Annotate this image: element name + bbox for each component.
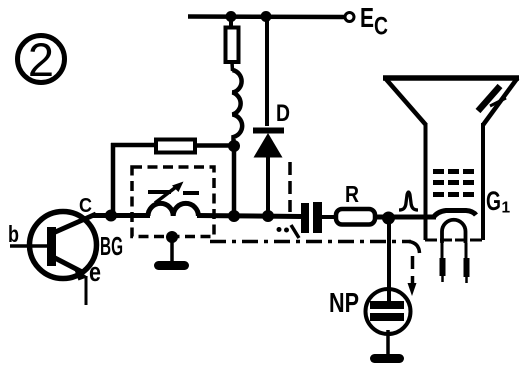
ground bar coil — [159, 261, 185, 270]
svg-text:G: G — [486, 186, 501, 216]
body right wall — [481, 123, 485, 240]
svg-text:e: e — [89, 257, 101, 287]
wire: Ec supply rail — [188, 14, 344, 19]
diaphragm curve — [433, 211, 476, 219]
figure label (2) — [18, 33, 65, 86]
transistor BG circle — [30, 212, 97, 279]
junction dot choke/feedback — [228, 140, 240, 152]
wire rail to resistor — [229, 16, 233, 28]
junction dot main/choke — [228, 210, 240, 222]
svg-text:D: D — [276, 100, 290, 127]
junction dot collector node — [105, 210, 117, 222]
variable core dashes — [148, 190, 171, 194]
grille dashes row 2 — [433, 180, 474, 185]
NP plate 1 — [370, 301, 404, 309]
junction dot main/diode — [262, 210, 274, 222]
pin left — [441, 243, 444, 259]
capacitor coupling plate 2 — [313, 202, 322, 233]
diode D cathode bar — [253, 128, 284, 134]
emitter diagonal wire — [53, 257, 82, 272]
wire diode to main line — [266, 156, 270, 216]
body bottom edge — [425, 239, 483, 242]
body left wall — [424, 123, 428, 240]
pin right — [465, 243, 468, 259]
funnel hatch mark — [478, 86, 500, 111]
shield dash-dot horizontal — [210, 240, 411, 244]
transistor base bar — [47, 227, 56, 266]
junction dot rail/resistor — [226, 11, 237, 22]
pulse waveform symbol — [399, 192, 418, 210]
wire NP to ground — [386, 330, 390, 356]
junction dot box ground tap — [166, 231, 178, 243]
shield dots pair — [277, 227, 282, 232]
collector diagonal wire — [53, 214, 96, 233]
shield vertical dashes to arrow — [411, 256, 415, 284]
resistor (collector load) — [226, 28, 239, 63]
svg-text:1: 1 — [502, 200, 511, 217]
resistor R — [336, 209, 375, 225]
svg-text:BG: BG — [100, 231, 123, 261]
wire node down to NP — [387, 218, 391, 303]
funnel right slant — [483, 78, 518, 125]
horn speaker funnel top — [383, 75, 519, 81]
wire capacitor to R — [322, 215, 337, 219]
base lead wire — [10, 244, 48, 248]
variable inductor tank coil — [148, 203, 198, 216]
shield dash-dot vertical left — [288, 162, 292, 212]
variable arrow diagonal — [155, 186, 178, 204]
NP plate 2 — [370, 313, 404, 321]
diode D triangle — [254, 133, 283, 158]
resistor feedback — [156, 140, 195, 153]
shield arrowhead — [408, 283, 417, 296]
magnet arch — [442, 220, 466, 243]
ground bar NP — [375, 354, 400, 363]
wire choke node down to main line — [232, 150, 237, 214]
wire feedback resistor to choke node — [195, 143, 234, 148]
shield bend down — [409, 242, 420, 254]
svg-text:E: E — [360, 2, 374, 33]
capacitor coupling plate 1 — [301, 203, 309, 233]
svg-text:C: C — [374, 13, 388, 41]
junction dot output node — [382, 212, 395, 225]
emitter arrowhead — [74, 268, 89, 281]
shield diagonal jog — [291, 225, 299, 238]
dashed shield box — [132, 167, 214, 237]
inductor choke L — [233, 70, 243, 142]
svg-text:2: 2 — [28, 33, 54, 86]
wire diode vertical from rail — [265, 16, 269, 126]
svg-text:b: b — [8, 221, 19, 247]
svg-text:NP: NP — [329, 287, 359, 318]
ground stub coil — [170, 237, 174, 261]
junction dot rail/diode — [261, 11, 272, 22]
piezo sounder NP circle — [366, 289, 411, 334]
funnel left slant — [385, 78, 426, 125]
wire resistor to choke — [230, 62, 234, 71]
terminal Ec — [345, 13, 354, 22]
main line segment: tank to capacitor — [197, 216, 301, 217]
grille dashes row 1 — [433, 169, 474, 174]
wire R to node — [375, 215, 436, 220]
svg-text:R: R — [345, 181, 359, 207]
emitter lead down — [85, 276, 88, 305]
grille dashes row 3 — [433, 192, 474, 197]
wire feedback branch up — [111, 143, 116, 215]
main line segment: collector to tank — [93, 213, 150, 218]
wire to feedback resistor — [111, 143, 157, 148]
svg-text:C: C — [79, 195, 92, 217]
